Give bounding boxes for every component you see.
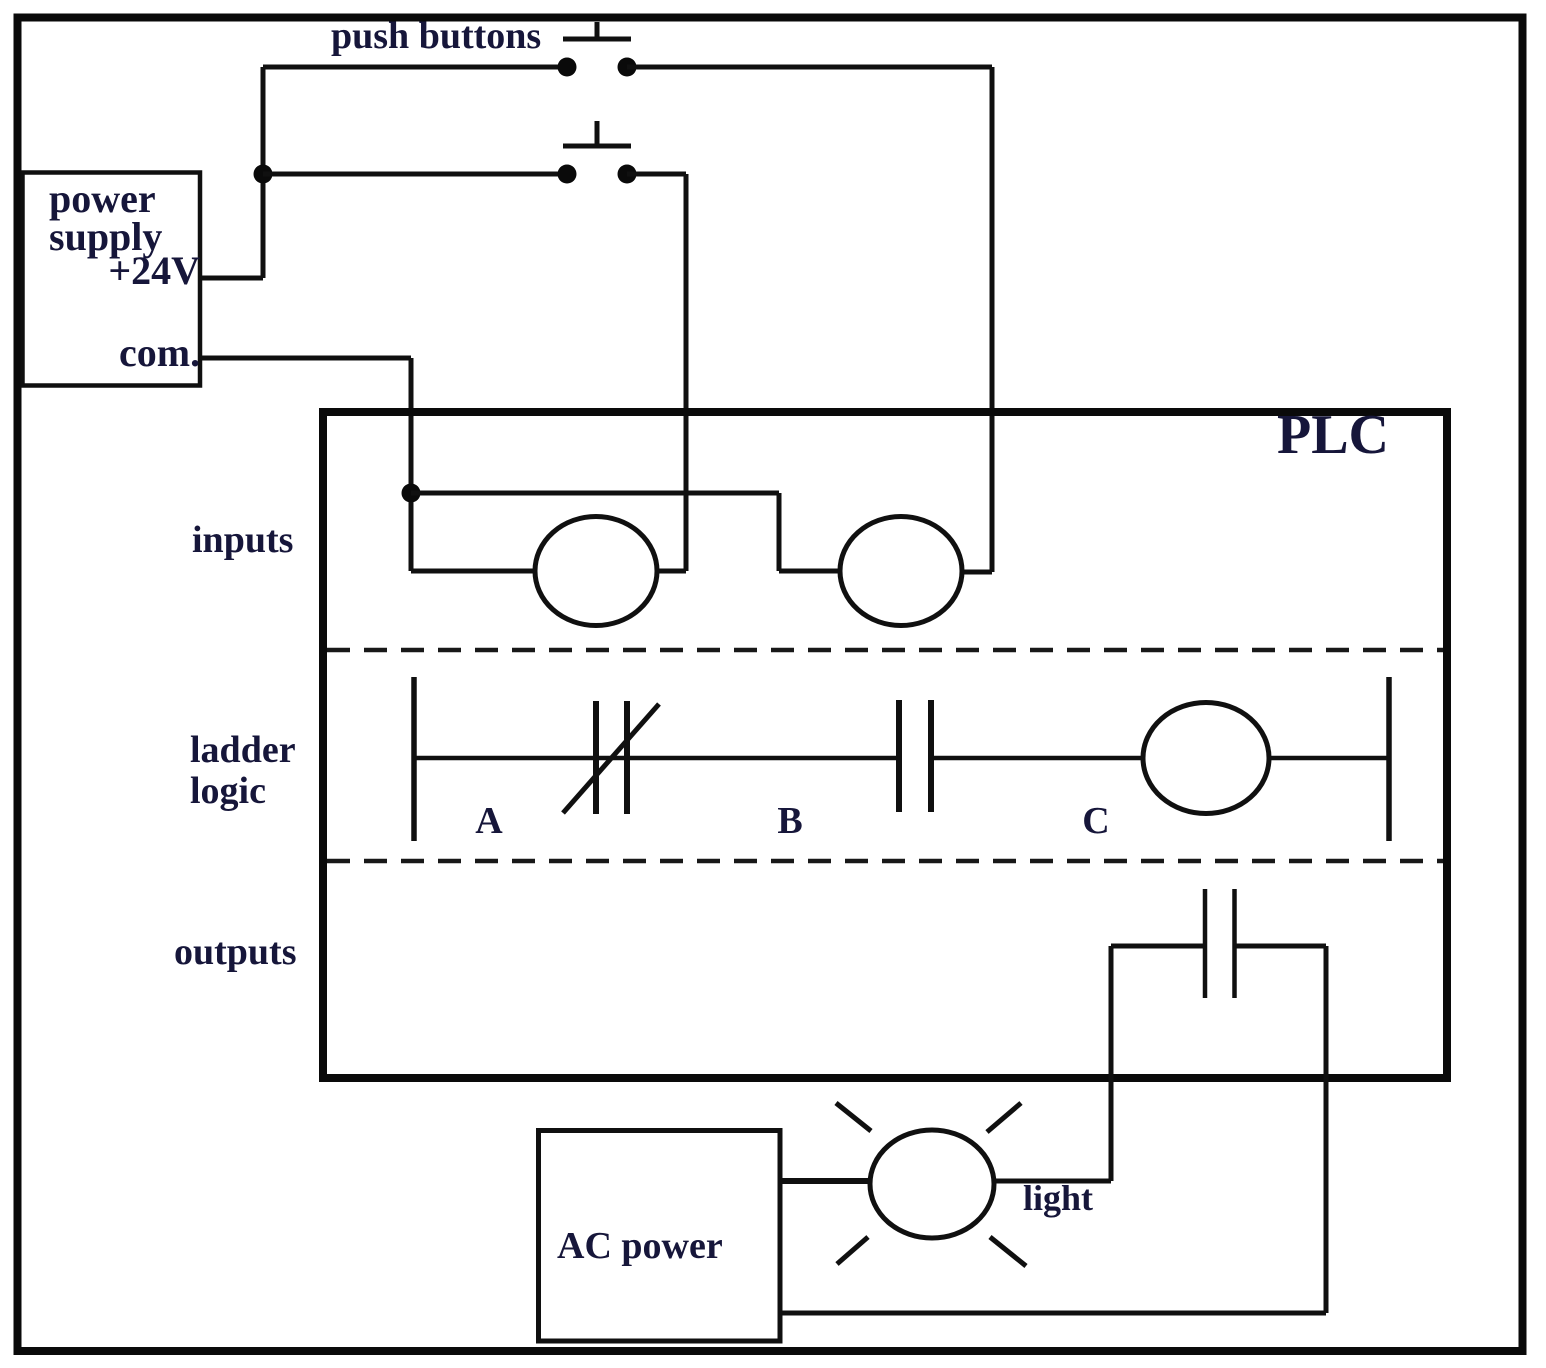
svg-text:PLC: PLC bbox=[1277, 404, 1389, 466]
wire com riser down bbox=[409, 358, 414, 571]
junction node on +24V riser bbox=[254, 165, 273, 184]
AC power source box bbox=[539, 1131, 781, 1342]
wire AC power to light bbox=[782, 1178, 870, 1184]
light lamp LP1 bbox=[870, 1130, 994, 1238]
wire rung right segment bbox=[1269, 756, 1389, 761]
svg-text:A: A bbox=[475, 800, 503, 842]
wire from PB2 right terminal bbox=[627, 172, 686, 177]
wire from PB1 right terminal bbox=[627, 65, 992, 70]
push button PB2 (normally open) bbox=[558, 121, 637, 184]
wire rung middle segment bbox=[931, 756, 1143, 761]
ladder right power rail bbox=[1386, 677, 1392, 841]
wire output left drop to light bbox=[1109, 946, 1114, 1181]
PLC enclosure box bbox=[323, 412, 1447, 1078]
contact A (normally closed) bbox=[563, 701, 659, 814]
input indicator IN2 bbox=[840, 517, 962, 626]
contact B (normally open) bbox=[899, 700, 931, 812]
svg-text:push buttons: push buttons bbox=[331, 15, 541, 57]
light rays bbox=[836, 1103, 1026, 1266]
svg-text:inputs: inputs bbox=[192, 519, 293, 561]
push button PB1 (normally open) bbox=[558, 22, 637, 77]
svg-text:com.: com. bbox=[119, 330, 200, 375]
wire vertical +24V riser bbox=[261, 67, 266, 278]
dashed separator ladder logic / outputs bbox=[327, 859, 1443, 864]
svg-text:outputs: outputs bbox=[174, 931, 297, 973]
wire output contact right lead bbox=[1235, 944, 1327, 949]
svg-text:light: light bbox=[1023, 1178, 1093, 1218]
output coil C bbox=[1143, 703, 1269, 814]
wire AC return bottom bbox=[782, 1311, 1326, 1316]
output relay contact (normally open) bbox=[1205, 889, 1235, 998]
svg-text:ladder: ladder bbox=[190, 729, 296, 771]
wire to push button PB1 left terminal bbox=[263, 65, 567, 70]
power supply PS1 box bbox=[23, 173, 201, 386]
svg-text:C: C bbox=[1082, 800, 1109, 842]
svg-text:AC power: AC power bbox=[557, 1225, 723, 1267]
input indicator IN1 bbox=[535, 517, 657, 626]
wire com from power supply bbox=[201, 356, 411, 361]
wire light to output drop bbox=[994, 1179, 1111, 1184]
wire com to IN1 left terminal bbox=[411, 569, 535, 574]
wire to push button PB2 left terminal bbox=[263, 172, 567, 177]
junction node on com feeder bbox=[402, 484, 421, 503]
wire PB1 drop to input IN2 bbox=[963, 67, 992, 572]
wire +24V from power supply bbox=[201, 276, 263, 281]
wire rung left segment bbox=[414, 756, 899, 761]
ladder left power rail bbox=[411, 677, 417, 841]
wire com branch to IN2 bbox=[411, 493, 840, 571]
wire PB2 drop to input IN1 bbox=[657, 174, 686, 571]
wire output contact left lead bbox=[1111, 944, 1205, 949]
svg-text:B: B bbox=[777, 800, 802, 842]
dashed separator inputs / ladder logic bbox=[327, 648, 1443, 653]
svg-text:logic: logic bbox=[190, 770, 266, 812]
wire output right drop to AC return bbox=[1324, 946, 1329, 1313]
svg-text:+24V: +24V bbox=[108, 248, 200, 293]
